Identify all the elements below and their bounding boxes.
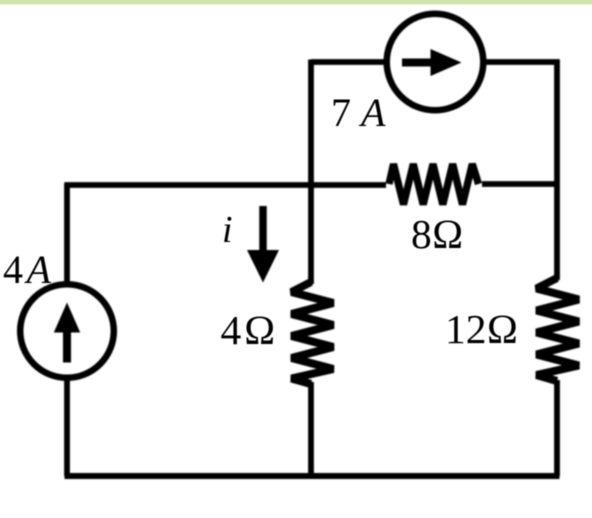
resistor 4ohm (vertical zigzag)	[292, 282, 334, 384]
arrow of 4A source (up)	[63, 329, 71, 363]
current source I2 7A (circle)	[387, 14, 484, 111]
arrow of 7A source (right)	[402, 59, 434, 67]
wire: top rail left of 7A source	[311, 59, 386, 65]
wire: right vertical bottom (12-ohm resistor to bottom rail)	[554, 380, 560, 476]
svg-text:12Ω: 12Ω	[445, 306, 518, 352]
svg-text:4Ω: 4Ω	[221, 307, 279, 353]
wire: left vertical top (node A to 4A source)	[64, 183, 70, 284]
current arrow i (down)	[259, 206, 267, 253]
wire: middle horizontal rail right of 8-ohm resistor	[482, 181, 560, 187]
wire: bottom rail	[65, 473, 560, 479]
svg-text:8Ω: 8Ω	[411, 211, 464, 257]
wire: middle vertical bottom (4-ohm resistor to bottom rail)	[308, 382, 314, 476]
resistor 12ohm (vertical zigzag)	[537, 278, 579, 381]
svg-text:4: 4	[3, 247, 23, 292]
wire: middle vertical top (top rail to 4-ohm resistor)	[308, 60, 314, 285]
current source I1 4A (circle)	[20, 284, 114, 378]
svg-text:7 A: 7 A	[331, 90, 386, 135]
wire: top rail right of 7A source	[485, 59, 560, 65]
resistor 8ohm (horizontal zigzag)	[389, 164, 479, 205]
svg-text:i: i	[222, 209, 233, 251]
wire: left vertical bottom (4A source to bottom rail)	[64, 378, 70, 476]
wire: right vertical top (top rail to 12-ohm resistor)	[554, 60, 560, 281]
wire: middle horizontal rail left of 8-ohm resistor	[65, 182, 387, 188]
svg-text:A: A	[24, 247, 52, 292]
green header bar	[0, 0, 592, 6]
